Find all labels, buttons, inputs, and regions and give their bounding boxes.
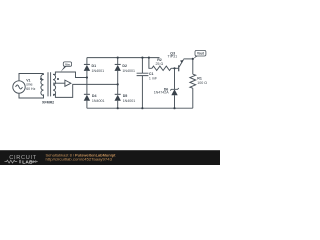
diode D2 leads	[117, 58, 119, 85]
svg-text:1N4001: 1N4001	[92, 69, 105, 73]
svg-text:D5: D5	[123, 94, 128, 98]
transistor Q3 emitter diagonal	[179, 59, 184, 67]
transformer XFMR2 primary winding	[41, 74, 44, 96]
junction dot bridge right AC node	[117, 83, 119, 85]
svg-text:1 mF: 1 mF	[149, 77, 158, 81]
svg-text:LAB: LAB	[22, 160, 33, 166]
svg-text:TIP31: TIP31	[168, 55, 178, 59]
svg-text:D1: D1	[92, 64, 97, 68]
junction dot bridge left AC node	[86, 76, 88, 78]
svg-text:1N4001: 1N4001	[92, 99, 105, 103]
wire D1 cathode to rail	[86, 58, 88, 65]
wire R2 to Q3 base	[171, 67, 179, 69]
logo capacitor mark	[20, 160, 21, 163]
capacitor C1 plates	[137, 73, 149, 75]
capacitor C1 bottom lead	[141, 76, 143, 109]
junction dot rail-D2	[117, 57, 119, 59]
capacitor C1 top lead	[141, 58, 143, 74]
logo resistor squiggle	[5, 160, 18, 163]
diode D1 body	[84, 65, 90, 71]
diode D5 leads	[117, 84, 119, 108]
resistor R1 bottom lead	[192, 88, 194, 108]
zener D6 cathode bar with hooks	[170, 88, 179, 90]
junction dot Vout node	[192, 58, 194, 60]
zener D6 body	[171, 89, 177, 95]
sine wave inside V1	[16, 85, 23, 89]
Vout flag	[193, 50, 206, 59]
diode D5 body	[115, 95, 121, 101]
svg-text:D4: D4	[92, 94, 97, 98]
wire Vout node down to R1	[192, 59, 194, 74]
svg-text:R1: R1	[197, 76, 202, 80]
junction dot bottom C1	[141, 107, 143, 109]
transformer XFMR2 secondary winding	[53, 74, 56, 95]
transformer phase dot secondary	[57, 78, 59, 80]
transistor Q3 base bar	[178, 65, 180, 71]
svg-text:100 Ω: 100 Ω	[197, 81, 207, 85]
svg-text:Vin: Vin	[65, 62, 70, 66]
transformer phase dot primary	[40, 78, 42, 80]
junction dot base-zener	[173, 67, 175, 69]
resistor R1 zigzag	[190, 74, 196, 88]
zener D6 bottom lead	[174, 95, 176, 108]
svg-text:D2: D2	[122, 64, 127, 68]
transistor Q3 emitter arrowhead	[180, 60, 183, 63]
svg-text:XFMR2: XFMR2	[42, 101, 54, 105]
junction dot rail-R2	[148, 57, 150, 59]
svg-text:60 Hz: 60 Hz	[26, 87, 35, 91]
Vin flag	[61, 62, 72, 72]
resistor R2 zigzag	[152, 66, 171, 70]
ground symbol (triangle)	[65, 80, 71, 86]
svg-text:C1: C1	[149, 72, 154, 76]
wire secondary bottom tap to bridge right node	[53, 84, 118, 97]
bottom rail	[87, 107, 193, 109]
svg-text:25 Ω: 25 Ω	[156, 62, 164, 66]
wire V1 top to primary	[19, 74, 44, 81]
diode D1 leads	[86, 71, 88, 78]
component labels	[26, 51, 207, 104]
diode D4 leads	[86, 78, 88, 109]
diode D2 body	[115, 65, 121, 71]
wire Q3 to Vout node	[184, 58, 193, 60]
junction dot bottom D6	[173, 107, 175, 109]
wire V1 bottom to primary	[19, 93, 44, 98]
svg-text:Vout: Vout	[197, 52, 205, 56]
svg-text:1N4742A: 1N4742A	[154, 91, 170, 95]
resistor R2 feed from rail	[149, 58, 152, 69]
footer bar	[0, 150, 220, 165]
svg-text:http//circuitlab.com/c452Taaay: http//circuitlab.com/c452Taaay9743	[46, 157, 113, 161]
transformer core	[48, 72, 51, 96]
logo diode mark	[31, 160, 38, 163]
svg-text:1N4001: 1N4001	[122, 69, 135, 73]
voltage source V1	[13, 81, 25, 93]
svg-text:1N4001: 1N4001	[123, 99, 136, 103]
wire secondary top tap to bridge left node	[53, 72, 87, 78]
wire secondary center tap to ground	[53, 82, 65, 84]
junction dot bottom D5	[117, 107, 119, 109]
zener D6 top lead	[174, 68, 176, 89]
junction dot rail-C1	[141, 57, 143, 59]
diode D4 body	[84, 95, 90, 101]
top rail	[87, 57, 160, 59]
